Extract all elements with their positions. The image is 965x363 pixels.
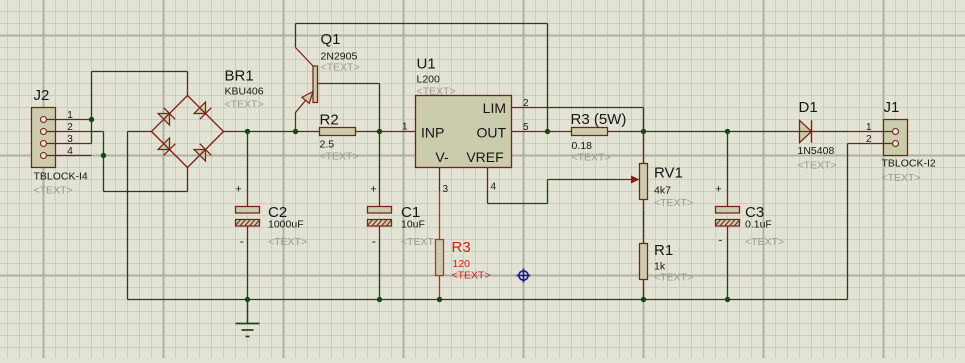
wire: [330, 83, 380, 85]
C2 minus sign: [240, 241, 243, 242]
svg-text:<TEXT>: <TEXT>: [572, 152, 611, 164]
wire: [295, 24, 297, 48]
node J2 pins 1-3 junction: [89, 117, 94, 122]
svg-text:10uF: 10uF: [401, 219, 425, 231]
wire: [187, 72, 189, 84]
wire: [92, 131, 104, 133]
svg-text:0.1uF: 0.1uF: [745, 219, 772, 231]
svg-text:R2: R2: [320, 112, 339, 129]
svg-text:<TEXT>: <TEXT>: [417, 85, 456, 97]
wire: [104, 191, 188, 193]
wire: [103, 156, 105, 192]
wire: [247, 132, 249, 195]
node C3 top junction: [725, 129, 730, 134]
wire: [488, 203, 548, 205]
svg-text:TBLOCK-I2: TBLOCK-I2: [882, 158, 936, 170]
wire: [620, 131, 644, 133]
svg-text:<TEXT>: <TEXT>: [654, 197, 693, 209]
wire: [92, 71, 188, 73]
resistor R3 120 (selected, red): [436, 192, 444, 300]
wire: [187, 180, 189, 192]
ground: [236, 300, 260, 337]
C1 minus sign: [372, 241, 375, 242]
svg-text:J2: J2: [34, 87, 50, 104]
svg-text:<TEXT>: <TEXT>: [268, 236, 307, 248]
wire: [368, 131, 380, 133]
svg-text:1: 1: [402, 122, 408, 133]
wire: [91, 120, 93, 144]
U1 INP pin 1: [380, 122, 416, 133]
svg-text:KBU406: KBU406: [225, 86, 264, 98]
capacitor C1 10uF: [368, 195, 392, 238]
wire: [824, 131, 848, 133]
J1 pin numbers: [866, 122, 872, 145]
svg-text:4k7: 4k7: [654, 185, 671, 197]
svg-text:R3 (5W): R3 (5W): [571, 111, 627, 128]
svg-text:1N5408: 1N5408: [798, 145, 835, 157]
J2 pin numbers: [67, 110, 73, 157]
svg-text:3: 3: [443, 184, 449, 195]
svg-text:<TEXT>: <TEXT>: [745, 236, 784, 248]
svg-text:R3: R3: [452, 239, 471, 256]
svg-text:BR1: BR1: [225, 68, 254, 85]
node ground bus R3: [437, 297, 442, 302]
svg-text:1: 1: [866, 122, 872, 133]
potentiometer RV1 4k7: [616, 132, 648, 212]
capacitor C3 0.1uF: [716, 195, 740, 238]
svg-text:V-: V-: [435, 149, 449, 165]
wire: [296, 23, 548, 25]
svg-text:+: +: [370, 184, 376, 196]
svg-text:VREF: VREF: [466, 149, 503, 165]
svg-text:2: 2: [67, 122, 73, 133]
origin marker: [517, 269, 531, 283]
svg-text:Q1: Q1: [321, 31, 341, 48]
node ground bus C3: [725, 297, 730, 302]
wire: [727, 238, 729, 300]
svg-text:RV1: RV1: [654, 165, 683, 182]
svg-text:<TEXT>: <TEXT>: [798, 160, 837, 172]
wire: [643, 212, 645, 232]
svg-text:1000uF: 1000uF: [268, 219, 304, 231]
svg-text:<TEXT>: <TEXT>: [321, 62, 360, 74]
svg-text:R1: R1: [654, 242, 673, 259]
diode D1 1N5408: [788, 120, 824, 142]
transistor Q1 2N2905: [296, 48, 330, 132]
svg-text:<TEXT>: <TEXT>: [654, 272, 693, 284]
wire: [91, 72, 93, 120]
svg-text:D1: D1: [799, 99, 818, 116]
wire: [727, 132, 729, 195]
svg-text:LIM: LIM: [483, 100, 506, 116]
svg-text:<TEXT>: <TEXT>: [452, 270, 491, 282]
node ground bus C1: [377, 297, 382, 302]
node ground bus R1: [641, 297, 646, 302]
connector J1 TBLOCK-I2: [848, 120, 908, 156]
wire: [547, 24, 549, 132]
U1 V- pin 3: [440, 168, 449, 196]
wire: [379, 84, 381, 132]
svg-text:1: 1: [67, 110, 73, 121]
node C2 top junction: [245, 129, 250, 134]
node Q1 emitter junction: [293, 129, 298, 134]
wire: [128, 299, 848, 301]
node ground bus C2: [245, 297, 250, 302]
node INP/C1 junction: [377, 129, 382, 134]
svg-text:+: +: [715, 184, 721, 196]
wire: [379, 238, 381, 300]
svg-text:INP: INP: [421, 125, 444, 141]
svg-text:<TEXT>: <TEXT>: [225, 99, 264, 111]
wire: [847, 144, 849, 300]
capacitor C2 1000uF: [236, 195, 260, 238]
wire: [643, 292, 645, 300]
wire: [103, 132, 105, 156]
svg-text:<TEXT>: <TEXT>: [34, 185, 73, 197]
svg-text:5: 5: [523, 122, 529, 133]
bridge rectifier BR1 KBU406: [140, 84, 236, 180]
connector J2 TBLOCK-I4: [32, 108, 92, 168]
svg-text:0.18: 0.18: [572, 140, 593, 152]
svg-text:4: 4: [67, 146, 73, 157]
wire: [127, 132, 129, 300]
U1 OUT pin 5: [512, 122, 548, 133]
wire: [547, 180, 549, 204]
svg-text:2: 2: [866, 134, 872, 145]
node OUT junction: [545, 129, 550, 134]
U1 pin names: [421, 100, 506, 165]
wire: [487, 192, 489, 204]
resistor R1 1k: [640, 232, 648, 292]
node J2 pins 2-4 junction: [101, 153, 106, 158]
U1 VREF pin 4: [488, 168, 497, 193]
svg-text:L200: L200: [417, 74, 441, 86]
op-amp U1 L200 regulator body: [416, 96, 512, 168]
svg-text:<TEXT>: <TEXT>: [401, 236, 440, 248]
wire: [548, 107, 644, 109]
node LIM/RV1 junction: [641, 129, 646, 134]
svg-text:J1: J1: [884, 99, 900, 116]
U1 LIM pin 2: [512, 98, 548, 109]
wire: [644, 131, 728, 133]
svg-text:2.5: 2.5: [320, 139, 335, 151]
wire: [548, 179, 616, 181]
wire: [728, 131, 788, 133]
svg-text:<TEXT>: <TEXT>: [882, 172, 921, 184]
resistor R2: [308, 128, 368, 136]
svg-text:<TEXT>: <TEXT>: [320, 151, 359, 163]
resistor R3 (5W) 0.18: [548, 128, 620, 136]
wire: [247, 238, 249, 300]
svg-text:4: 4: [491, 182, 497, 193]
svg-text:TBLOCK-I4: TBLOCK-I4: [34, 171, 88, 183]
svg-text:OUT: OUT: [476, 125, 506, 141]
wire: [379, 132, 381, 195]
svg-text:120: 120: [453, 258, 471, 270]
svg-text:U1: U1: [417, 56, 436, 73]
C3 minus sign: [719, 240, 722, 241]
svg-text:2: 2: [523, 98, 529, 109]
svg-text:+: +: [235, 184, 241, 196]
wire: [236, 131, 308, 133]
wire: [247, 300, 249, 324]
wire: [128, 131, 140, 133]
wire: [643, 108, 645, 132]
svg-text:3: 3: [67, 134, 73, 145]
